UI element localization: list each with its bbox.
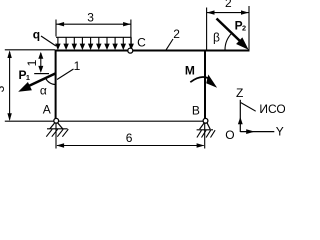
- leader line for ISO label: [241, 103, 256, 112]
- dimension 6 (bottom): [56, 143, 204, 147]
- extension line x=56 for top dim: [55, 20, 57, 37]
- svg-text:O: O: [225, 128, 234, 142]
- support A: base line: [47, 128, 68, 130]
- svg-text:6: 6: [126, 131, 133, 145]
- svg-text:1: 1: [74, 59, 81, 73]
- extension line left at base level: [5, 120, 55, 122]
- extension line below B: [204, 124, 206, 149]
- extension line left at beam level: [5, 49, 55, 51]
- bottom chord A-B: [55, 120, 206, 122]
- leader line for point label 1: [57, 69, 74, 80]
- hinge C circle: [128, 48, 133, 53]
- support A: hatching: [46, 129, 68, 137]
- tick at bottom of dimension 1: [34, 73, 49, 75]
- leader line from q to load: [41, 36, 56, 46]
- svg-text:Z: Z: [236, 86, 243, 100]
- svg-text:ИСО: ИСО: [259, 102, 285, 116]
- svg-text:3: 3: [0, 85, 7, 92]
- svg-text:2: 2: [173, 27, 180, 41]
- dimension 3 (top horizontal): [56, 22, 131, 26]
- force P1 arrow: [18, 73, 56, 92]
- support A: pin circle: [54, 118, 59, 123]
- axes: Z axis: [238, 100, 243, 132]
- dimension 3 (left vertical): [7, 50, 11, 121]
- svg-text:B: B: [192, 104, 200, 118]
- top beam (member from corner over C to right end): [55, 50, 250, 52]
- dimension 2 (top right): [207, 10, 249, 14]
- extension line x=206.6: [206, 8, 208, 50]
- left column: [55, 50, 57, 122]
- svg-text:β: β: [213, 30, 220, 44]
- support B: pin circle: [203, 118, 208, 123]
- svg-text:A: A: [43, 103, 51, 117]
- extension line x=131 for top dim (down to hinge C): [130, 20, 132, 49]
- axes: Y axis: [240, 129, 274, 134]
- support A: triangle legs: [50, 123, 63, 129]
- support B: hatching: [197, 130, 215, 137]
- angle arc beta: [225, 33, 232, 50]
- svg-text:3: 3: [87, 11, 94, 25]
- svg-text:2: 2: [225, 0, 232, 10]
- distributed load arrows: [56, 37, 133, 48]
- leader line from 2 to beam: [166, 39, 173, 50]
- extension line below A: [55, 124, 57, 149]
- angle arc alpha: [46, 78, 56, 84]
- svg-text:M: M: [185, 64, 195, 78]
- extension line x=249: [248, 6, 250, 50]
- force P2 arrow: [217, 19, 249, 50]
- support B: triangle legs: [200, 123, 211, 129]
- dimension 1 (vertical below corner): [38, 52, 43, 73]
- moment M arc: [190, 75, 217, 88]
- svg-text:Y: Y: [276, 125, 284, 139]
- right column: [204, 50, 206, 122]
- svg-text:1: 1: [25, 59, 39, 66]
- svg-text:C: C: [137, 36, 146, 50]
- svg-text:q: q: [33, 28, 40, 42]
- support B: base line: [197, 129, 213, 131]
- distributed load q: top line: [56, 36, 131, 38]
- svg-text:α: α: [40, 84, 47, 98]
